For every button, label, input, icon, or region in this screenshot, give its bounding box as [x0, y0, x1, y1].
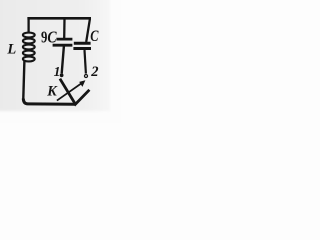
svg-text:L: L — [6, 41, 16, 57]
svg-text:1: 1 — [54, 64, 61, 79]
svg-text:9C: 9C — [41, 27, 57, 46]
svg-text:2: 2 — [90, 64, 98, 80]
svg-text:C: C — [90, 28, 99, 45]
svg-text:K: K — [46, 83, 58, 99]
